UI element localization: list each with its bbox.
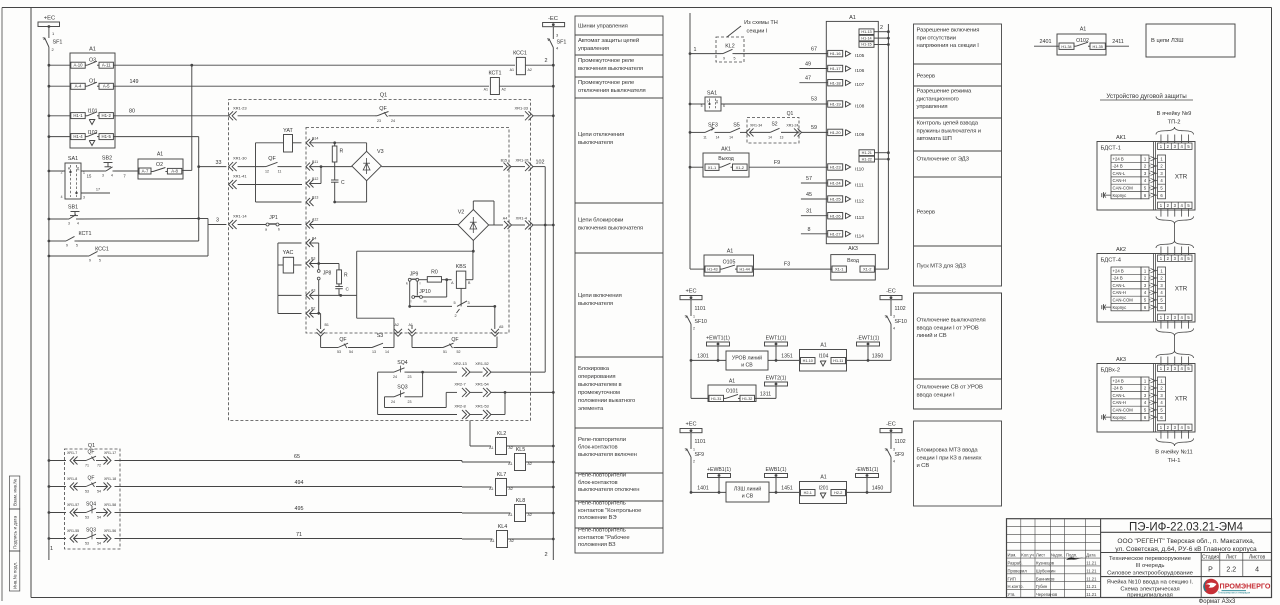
svg-text:A1: A1	[849, 15, 856, 21]
svg-text:Выход: Выход	[718, 156, 734, 162]
chevron A5	[491, 325, 503, 336]
svg-text:Подп.: Подп.	[1066, 553, 1077, 558]
svg-text:XR1-4: XR1-4	[516, 216, 528, 221]
svg-text:JP10: JP10	[419, 289, 431, 295]
svg-text:F3: F3	[784, 262, 790, 268]
svg-text:Н1-31: Н1-31	[711, 397, 721, 401]
wire net49 stub	[799, 62, 827, 69]
relay block A1 I201	[800, 475, 892, 504]
svg-text:Н1-5: Н1-5	[102, 134, 112, 139]
relay coil KL8	[508, 498, 555, 522]
chevron B1	[317, 314, 329, 348]
svg-text:KL4: KL4	[498, 524, 508, 530]
svg-text:Н1-24: Н1-24	[830, 181, 842, 186]
svg-text:Шинки управления: Шинки управления	[578, 24, 628, 30]
svg-text:71: 71	[85, 463, 89, 467]
svg-text:11.21: 11.21	[1086, 568, 1097, 573]
svg-text:1301: 1301	[697, 353, 709, 359]
bus -EWB1(1)	[856, 467, 879, 492]
svg-text:SQ4: SQ4	[397, 360, 407, 366]
breaker SF3	[689, 123, 728, 140]
switch SA1 middle	[689, 91, 828, 112]
svg-text:Силовое электрооборудование: Силовое электрооборудование	[1107, 571, 1194, 577]
svg-text:А1: А1	[489, 446, 493, 450]
chevron B15	[501, 159, 525, 171]
svg-text:KL2: KL2	[725, 44, 735, 50]
svg-text:SA1: SA1	[707, 91, 717, 97]
bus -EWT1(1)	[857, 336, 880, 361]
svg-text:KL7: KL7	[497, 472, 507, 478]
title block customer	[1101, 537, 1272, 553]
wire net65	[120, 454, 511, 462]
svg-text:5: 5	[99, 259, 101, 263]
svg-text:А-4: А-4	[75, 84, 82, 89]
input terminal Н1-18 signal I107	[828, 80, 865, 89]
svg-text:Реле-повторители: Реле-повторители	[578, 473, 626, 479]
svg-text:Теплоэнергия и генерация: Теплоэнергия и генерация	[1218, 591, 1251, 595]
svg-text:Отключение от ЭДЗ: Отключение от ЭДЗ	[917, 157, 970, 163]
svg-text:14: 14	[768, 135, 772, 139]
svg-text:В12: В12	[312, 177, 318, 181]
svg-text:Н1-2: Н1-2	[102, 113, 112, 118]
svg-text:Губин: Губин	[1036, 584, 1048, 589]
input terminal Н1-20 signal I109	[828, 129, 865, 138]
svg-text:Отключение СВ от УРОВ: Отключение СВ от УРОВ	[917, 385, 983, 391]
svg-text:b: b	[278, 228, 280, 232]
svg-text:53: 53	[85, 541, 89, 545]
chevron A2	[357, 295, 402, 347]
svg-text:CAN-H: CAN-H	[1113, 178, 1126, 183]
note to cell 11	[1155, 449, 1192, 465]
svg-text:В ячейку №11: В ячейку №11	[1155, 449, 1192, 456]
svg-text:Техническое перевооружение: Техническое перевооружение	[1109, 556, 1192, 562]
svg-text:CAN-COM: CAN-COM	[1113, 186, 1134, 191]
wire UROV row	[690, 353, 891, 361]
svg-text:JP9: JP9	[410, 272, 419, 278]
aux contact enclosure Q1 bottom-left	[65, 443, 121, 549]
input terminal Н1-26 signal I113	[828, 213, 865, 222]
svg-text:1102: 1102	[895, 306, 906, 312]
svg-text:CAN-L: CAN-L	[1113, 393, 1126, 398]
svg-text:QF: QF	[88, 476, 95, 482]
svg-text:В15: В15	[501, 159, 507, 163]
svg-text:52: 52	[457, 350, 461, 354]
button SB2	[87, 156, 138, 179]
svg-text:14: 14	[716, 135, 720, 139]
svg-text:1350: 1350	[872, 353, 884, 359]
svg-text:SQ3: SQ3	[86, 528, 96, 534]
contact KCC1 aux	[48, 225, 209, 263]
svg-text:R: R	[340, 149, 344, 155]
svg-text:5: 5	[734, 57, 736, 61]
svg-text:I201: I201	[819, 486, 829, 492]
svg-text:дистанционного: дистанционного	[917, 96, 960, 102]
chevron XR1-4	[516, 216, 555, 230]
svg-text:5: 5	[76, 244, 78, 248]
svg-text:Q1: Q1	[380, 93, 387, 99]
connector ticks АК3	[1161, 357, 1189, 439]
svg-text:CAN-L: CAN-L	[1113, 171, 1126, 176]
svg-text:1351: 1351	[781, 353, 793, 359]
wire net1 row	[48, 64, 516, 67]
svg-text:QF: QF	[339, 337, 346, 343]
chevron XR1-53	[470, 392, 505, 419]
bus -EC LZSh	[880, 422, 906, 490]
svg-text:53: 53	[811, 97, 817, 103]
chevron XR1-33	[514, 106, 553, 121]
contact QF 12-11	[238, 156, 302, 174]
svg-text:54: 54	[97, 541, 101, 545]
rectifier V2	[458, 201, 503, 241]
svg-text:A1: A1	[1080, 27, 1087, 33]
svg-text:Кол.уч: Кол.уч	[1021, 553, 1034, 558]
bus +EWT1(1)	[706, 336, 730, 361]
svg-text:Н1-13: Н1-13	[861, 30, 871, 34]
svg-text:Н1-26: Н1-26	[830, 213, 842, 218]
svg-text:11.21: 11.21	[1086, 592, 1097, 597]
svg-text:Реле-повторители: Реле-повторители	[578, 437, 626, 443]
svg-text:ЛЗШ линий: ЛЗШ линий	[734, 486, 761, 493]
wire net1 branch to O2	[182, 65, 192, 170]
svg-text:12: 12	[265, 170, 269, 174]
svg-text:принципиальная: принципиальная	[1127, 592, 1173, 598]
chevron B12 return	[238, 167, 321, 188]
svg-text:2: 2	[693, 327, 695, 331]
svg-text:А1: А1	[510, 68, 514, 72]
chevron A12	[306, 218, 458, 229]
svg-text:XR1-41: XR1-41	[233, 174, 247, 179]
svg-text:XR1-34: XR1-34	[750, 124, 762, 128]
svg-text:+24 В: +24 В	[1113, 268, 1124, 273]
svg-text:59: 59	[811, 125, 817, 131]
svg-text:53: 53	[85, 489, 89, 493]
svg-text:1101: 1101	[695, 439, 706, 445]
svg-text:S5: S5	[733, 123, 740, 129]
bus -EC top of left area	[543, 16, 565, 27]
svg-text:ООО "РЕГЕНТ" Тверская обл., п.: ООО "РЕГЕНТ" Тверская обл., п. Максатиха…	[1117, 537, 1255, 545]
svg-text:Листов: Листов	[1249, 554, 1266, 560]
chevron XR2-13	[453, 361, 470, 377]
svg-text:Блокировка МТЗ ввода: Блокировка МТЗ ввода	[917, 448, 979, 454]
svg-text:Н1-21: Н1-21	[862, 151, 872, 155]
svg-text:23: 23	[408, 400, 412, 404]
resistor R in YAC branch	[337, 264, 348, 287]
svg-text:КСС1: КСС1	[513, 51, 527, 57]
svg-text:ГИП: ГИП	[1008, 576, 1016, 581]
svg-text:В13: В13	[312, 196, 318, 200]
svg-text:R: R	[344, 273, 348, 279]
svg-text:Разраб.: Разраб.	[1008, 561, 1023, 566]
svg-text:А2: А2	[509, 446, 513, 450]
svg-text:В3: В3	[311, 257, 315, 261]
svg-text:24: 24	[393, 375, 397, 379]
svg-text:XR1-17: XR1-17	[104, 451, 116, 455]
svg-text:CAN-COM: CAN-COM	[1113, 298, 1134, 303]
chevron B11	[306, 160, 352, 171]
svg-text:I109: I109	[855, 132, 865, 138]
svg-text:Н2-2: Н2-2	[834, 491, 842, 495]
svg-text:Н1-15: Н1-15	[861, 43, 871, 47]
svg-text:I114: I114	[855, 233, 864, 239]
svg-text:БДСТ-4: БДСТ-4	[1101, 258, 1122, 264]
svg-text:Н1-25: Н1-25	[830, 197, 842, 202]
svg-text:ТН-1: ТН-1	[1168, 458, 1181, 464]
svg-text:С: С	[341, 180, 345, 186]
chevron XR1-23	[229, 106, 248, 121]
wire net57 stub	[801, 176, 828, 183]
svg-text:9: 9	[66, 244, 68, 248]
contact S5	[728, 123, 747, 140]
svg-text:49: 49	[805, 62, 811, 68]
contact KCT1 aux	[48, 231, 199, 248]
svg-text:1311: 1311	[760, 391, 771, 397]
inner connector boundary dashed	[306, 128, 509, 334]
svg-text:23: 23	[408, 375, 412, 379]
svg-text:ПЭ-ИФ-22.03.21-ЭМ4: ПЭ-ИФ-22.03.21-ЭМ4	[1129, 522, 1244, 534]
relay block A1 upper-left	[70, 47, 115, 149]
svg-text:Н1-10: Н1-10	[803, 359, 813, 363]
relay contact KL2 dashed box	[689, 37, 828, 62]
svg-text:А12: А12	[312, 218, 318, 222]
svg-text:Лист: Лист	[1226, 554, 1238, 560]
svg-text:А-10: А-10	[73, 63, 83, 68]
jumper JP1	[238, 215, 302, 232]
svg-text:напряжения на секции I: напряжения на секции I	[917, 43, 980, 49]
svg-text:YAC: YAC	[283, 250, 294, 256]
svg-text:KL8: KL8	[516, 498, 526, 504]
contact QF 71-72 bottom row	[48, 450, 121, 468]
svg-text:47: 47	[805, 76, 811, 82]
svg-text:управления: управления	[917, 104, 948, 110]
bus EWT2(1)	[765, 376, 788, 399]
svg-text:автомата ШП: автомата ШП	[917, 136, 952, 142]
svg-text:R0: R0	[431, 270, 438, 276]
svg-text:XR1-7: XR1-7	[67, 451, 77, 455]
svg-text:Пуск МТЗ для ЭДЗ: Пуск МТЗ для ЭДЗ	[917, 264, 967, 270]
svg-text:А-5: А-5	[103, 84, 110, 89]
svg-text:положении выкатного: положении выкатного	[578, 398, 636, 404]
middle right rail net2	[880, 24, 888, 269]
svg-text:Н1-43: Н1-43	[707, 268, 717, 272]
svg-text:А1: А1	[484, 88, 488, 92]
relay block A1 middle	[826, 15, 878, 244]
relay coil KL2	[489, 431, 555, 455]
svg-text:4: 4	[61, 195, 63, 199]
svg-text:3: 3	[68, 222, 70, 226]
svg-text:Н2-1: Н2-1	[804, 491, 812, 495]
svg-text:9: 9	[723, 57, 725, 61]
svg-text:X1-1: X1-1	[708, 165, 717, 170]
svg-text:А2: А2	[528, 513, 532, 517]
svg-text:Из схемы ТН: Из схемы ТН	[744, 20, 778, 26]
contact A1.I102	[71, 130, 114, 146]
svg-text:53: 53	[85, 515, 89, 519]
svg-text:В2: В2	[311, 307, 315, 311]
svg-text:Р: Р	[1208, 567, 1213, 574]
svg-text:XR2-13: XR2-13	[453, 361, 467, 366]
left function-chain text column	[575, 16, 663, 553]
svg-text:495: 495	[295, 506, 304, 512]
svg-text:+ЕС: +ЕС	[685, 289, 696, 295]
svg-text:А2: А2	[502, 88, 506, 92]
svg-text:Контроль цепей взвода: Контроль цепей взвода	[917, 120, 979, 127]
capacitor C in YAC branch	[335, 287, 349, 297]
relay block A1 O105	[690, 167, 754, 276]
svg-text:XTR: XTR	[1175, 286, 1188, 293]
svg-text:XR1-53: XR1-53	[475, 404, 489, 409]
svg-text:1: 1	[693, 315, 695, 319]
chevron XR1-14	[229, 214, 248, 230]
svg-text:А3: А3	[311, 289, 315, 293]
relay block A1 O101	[691, 360, 776, 401]
right function-chain text column	[914, 24, 1002, 506]
bus EWB1(1)	[765, 467, 788, 492]
svg-text:при отсутствии: при отсутствии	[917, 35, 956, 41]
resistor R0	[419, 270, 452, 283]
block LZSh linij i SV	[726, 482, 769, 502]
svg-text:A1: A1	[729, 379, 735, 385]
svg-text:положения ВЗ: положения ВЗ	[578, 542, 616, 548]
svg-text:72: 72	[97, 463, 101, 467]
svg-text:Вход: Вход	[847, 258, 859, 264]
contact S2	[768, 122, 798, 140]
svg-text:XR1-23: XR1-23	[233, 106, 247, 111]
svg-text:XTR: XTR	[1175, 396, 1188, 403]
svg-text:SA1: SA1	[68, 156, 78, 162]
switch SA1 left	[48, 156, 111, 200]
svg-text:блок-контактов: блок-контактов	[578, 480, 618, 486]
svg-text:1450: 1450	[872, 485, 884, 491]
svg-text:CAN-H: CAN-H	[1113, 290, 1126, 295]
svg-text:XR2-7: XR2-7	[454, 381, 466, 386]
svg-text:JP1: JP1	[269, 215, 278, 221]
svg-text:I113: I113	[855, 215, 864, 221]
format label	[1199, 599, 1236, 605]
svg-text:XR1-54: XR1-54	[475, 381, 489, 386]
svg-text:67: 67	[811, 47, 817, 53]
svg-text:Н1-19: Н1-19	[830, 102, 842, 107]
contact A1.O1	[71, 79, 114, 90]
svg-text:А1: А1	[508, 513, 512, 517]
input terminal Н1-27 signal I114	[828, 231, 865, 240]
svg-text:V3: V3	[377, 149, 384, 155]
svg-text:А1: А1	[489, 487, 493, 491]
svg-text:секции I: секции I	[747, 29, 768, 35]
input terminal Н1-24 signal I111	[828, 180, 864, 189]
svg-text:2411: 2411	[1112, 39, 1124, 45]
svg-text:Утв.: Утв.	[1008, 592, 1016, 597]
svg-text:Цепи включения: Цепи включения	[578, 293, 622, 299]
right rail net2 of left area	[544, 50, 553, 561]
svg-text:Банников: Банников	[1036, 576, 1055, 581]
svg-text:XTR: XTR	[1175, 174, 1188, 181]
svg-text:О102: О102	[1076, 38, 1089, 44]
title block document number	[1101, 522, 1272, 534]
svg-text:Разрешение режима: Разрешение режима	[917, 89, 973, 95]
contact A1.I101	[71, 109, 114, 125]
svg-text:Резерв: Резерв	[917, 210, 935, 216]
input terminal Н1-19 signal I108	[828, 101, 865, 110]
svg-text:54: 54	[97, 515, 101, 519]
svg-text:XR2-8: XR2-8	[454, 404, 466, 409]
svg-text:Черепанов: Черепанов	[1036, 592, 1058, 597]
chevron XR2-7	[454, 381, 470, 397]
svg-text:А2: А2	[528, 462, 532, 466]
trip loop wiring YAT	[256, 143, 302, 202]
svg-text:С: С	[346, 287, 350, 293]
svg-text:Взам. инв.№: Взам. инв.№	[13, 479, 18, 506]
svg-text:Н1-4: Н1-4	[73, 134, 83, 139]
svg-text:О2: О2	[156, 162, 163, 168]
svg-text:2: 2	[544, 552, 547, 558]
svg-text:X1-2: X1-2	[863, 267, 872, 272]
chevron XR1-34 middle	[746, 124, 770, 137]
svg-text:и СВ: и СВ	[917, 463, 930, 469]
svg-text:и СВ: и СВ	[742, 494, 754, 500]
svg-text:Н1-27: Н1-27	[830, 231, 842, 236]
svg-text:I107: I107	[855, 82, 865, 88]
svg-text:-ЕС: -ЕС	[886, 289, 896, 295]
svg-text:Н1-11: Н1-11	[833, 359, 843, 363]
output terminals H1-13 H1-14 H1-15	[859, 29, 890, 47]
svg-text:Цепи отключения: Цепи отключения	[578, 132, 624, 138]
svg-text:YAT: YAT	[283, 128, 293, 134]
svg-text:24: 24	[391, 119, 395, 123]
svg-text:EWT2(1): EWT2(1)	[766, 376, 787, 382]
wire net47 stub	[799, 76, 827, 83]
svg-text:17: 17	[96, 188, 100, 192]
chevron XR1-54	[470, 381, 555, 397]
contact QF 51-52 in Q1	[412, 337, 497, 355]
svg-text:XR1-14: XR1-14	[233, 214, 247, 219]
svg-text:CAN-COM: CAN-COM	[1113, 408, 1134, 413]
breaker SF1 right pole	[547, 27, 566, 51]
svg-text:АК2: АК2	[1116, 247, 1126, 253]
svg-text:XR1-57: XR1-57	[67, 503, 79, 507]
svg-text:I110: I110	[855, 167, 864, 173]
svg-text:2: 2	[880, 25, 883, 31]
brace below AK2 and link to AK3	[1156, 328, 1194, 358]
svg-text:+EWT1(1): +EWT1(1)	[706, 336, 730, 342]
svg-text:11.21: 11.21	[1086, 576, 1097, 581]
svg-text:Лист: Лист	[1036, 553, 1045, 558]
svg-text:+ЕС: +ЕС	[44, 16, 55, 22]
svg-text:элемента: элемента	[578, 406, 604, 412]
svg-text:I112: I112	[855, 199, 864, 205]
svg-text:I104: I104	[819, 354, 829, 360]
contact SQ4 53-54 bottom row	[48, 502, 121, 520]
svg-text:XR1-8: XR1-8	[67, 477, 77, 481]
svg-text:SQ4: SQ4	[86, 502, 96, 508]
svg-text:АК3: АК3	[1116, 357, 1126, 363]
svg-text:A1: A1	[820, 343, 826, 349]
svg-text:Промежуточное реле: Промежуточное реле	[578, 58, 635, 64]
svg-text:Реле-повторитель: Реле-повторитель	[578, 501, 626, 507]
brace below AK1 and link to AK2	[1156, 216, 1194, 248]
chevron XR1-24 middle	[786, 124, 827, 137]
svg-text:31: 31	[806, 209, 812, 215]
svg-text:Н1-20: Н1-20	[830, 130, 842, 135]
svg-text:15: 15	[87, 174, 92, 179]
svg-text:А2: А2	[509, 487, 513, 491]
wire I102 out	[48, 135, 201, 241]
svg-text:4: 4	[893, 327, 895, 331]
svg-text:Изм.: Изм.	[1008, 553, 1017, 558]
svg-text:В11: В11	[312, 160, 318, 164]
svg-text:XR1-58: XR1-58	[104, 503, 116, 507]
svg-text:+EWB1(1): +EWB1(1)	[707, 467, 731, 473]
coil YAT	[283, 128, 293, 152]
